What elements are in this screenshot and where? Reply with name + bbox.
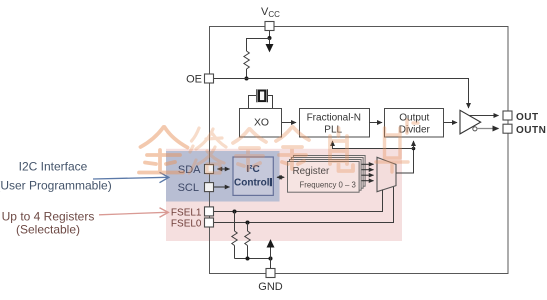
pin: SDA: [205, 165, 214, 174]
node: mux output junction: [412, 147, 416, 151]
pin: FSEL1: [205, 207, 214, 216]
svg-text:OE: OE: [186, 74, 202, 86]
pin: VCC: [265, 22, 274, 31]
wire: ground rail: [235, 258, 271, 260]
wire: PLL to Output Divider: [369, 122, 382, 124]
svg-text:OUTN: OUTN: [516, 125, 546, 136]
wire: FSEL0 net to mux select: [214, 187, 394, 223]
wires: register outputs to mux (4 arrows): [362, 164, 374, 180]
mux (frequency select): [377, 157, 396, 191]
svg-text:OUT: OUT: [516, 112, 539, 123]
block: XO oscillator: [240, 109, 282, 138]
crystal Y1: [249, 89, 273, 108]
svg-text:I2C Interface: I2C Interface: [19, 160, 88, 174]
block: I2C Control: [233, 157, 273, 195]
op-amp style output buffer U2: [460, 110, 481, 134]
node: ground rail junction 1: [246, 257, 250, 261]
wire: pull-up resistor to OE line: [246, 69, 248, 79]
wire: FSEL1 net to mux select: [214, 190, 383, 212]
svg-text:GND: GND: [258, 281, 283, 293]
block: Output Divider: [385, 109, 444, 138]
wire: OE net from pin to output buffer: [214, 79, 469, 109]
node: ground rail junction 2: [269, 257, 273, 261]
resistor R3 (FSEL0 pull-down): [245, 231, 250, 246]
svg-text:XO: XO: [254, 118, 269, 129]
svg-text:SCL: SCL: [178, 182, 199, 194]
wire: I2C Control to Register (bidirectional): [277, 176, 284, 178]
node: FSEL1 pull-down junction: [233, 210, 237, 214]
svg-text:Control: Control: [234, 178, 270, 189]
pin: GND: [266, 269, 275, 278]
wire: SDA pin to I2C Control (bidirectional): [218, 168, 230, 170]
power arrow: VCC feed (down arrow): [269, 38, 271, 52]
pin: SCL: [205, 183, 214, 192]
block: Fractional-N PLL: [300, 109, 370, 138]
shaded region: up-to-4-registers (pink): [166, 149, 402, 241]
pin: OUT: [503, 111, 512, 120]
annotation arrow: register select: [99, 212, 167, 215]
pin: FSEL0: [205, 218, 214, 227]
annotation arrow: I2C interface: [93, 177, 168, 179]
wire: ground rail to GND pin: [270, 259, 272, 269]
resistor R1 (OE pull-up): [244, 51, 249, 69]
svg-text:Register: Register: [293, 166, 330, 177]
wire: junction to Output Divider: [413, 141, 415, 149]
wire: Output Divider to output buffer: [444, 122, 457, 124]
wire: R2 to ground rail: [234, 246, 236, 259]
svg-text:(Selectable): (Selectable): [16, 223, 80, 237]
svg-text:Frequency 0 – 3: Frequency 0 – 3: [300, 181, 356, 190]
wire: VCC to pull-up resistor: [247, 39, 270, 52]
svg-text:FSEL1: FSEL1: [171, 207, 202, 218]
svg-text:Fractional-N: Fractional-N: [307, 112, 361, 123]
wire: bubble to OUTN pin: [477, 128, 499, 130]
wire: VCC stub into chip: [269, 31, 271, 39]
node: FSEL0 pull-down junction: [246, 221, 250, 225]
power arrow: internal ground reference (up arrow): [270, 240, 272, 259]
wire: R3 to ground rail: [247, 246, 249, 259]
svg-text:Up to 4 Registers: Up to 4 Registers: [2, 210, 95, 224]
wire: FSEL1 junction down to resistor: [234, 212, 236, 232]
wire: junction to PLL: [333, 141, 414, 149]
wire: mux output to PLL and Output Divider: [396, 149, 414, 174]
inversion bubble on buffer: [473, 127, 477, 131]
svg-text:FSEL0: FSEL0: [171, 218, 202, 229]
pin: OE: [205, 74, 214, 83]
chip outline U1: [210, 27, 509, 274]
node: VCC junction: [268, 36, 272, 40]
wire: SCL pin to I2C Control: [214, 186, 230, 188]
pin: OUTN: [503, 124, 512, 133]
svg-text:Divider: Divider: [399, 124, 431, 135]
resistor R2 (FSEL1 pull-down): [232, 231, 237, 246]
watermark (decorative overlay): [139, 120, 418, 173]
shaded region: I2C interface (blue): [166, 151, 280, 202]
node: OE pull-up junction: [245, 77, 249, 81]
wire: buffer to OUT pin: [469, 115, 498, 117]
wire: XO to PLL: [282, 122, 296, 124]
wire: FSEL0 junction down to resistor: [247, 223, 249, 232]
svg-text:(User Programmable): (User Programmable): [0, 179, 112, 193]
block: Register bank (stack of 4), Frequency 0-3: [288, 156, 366, 193]
